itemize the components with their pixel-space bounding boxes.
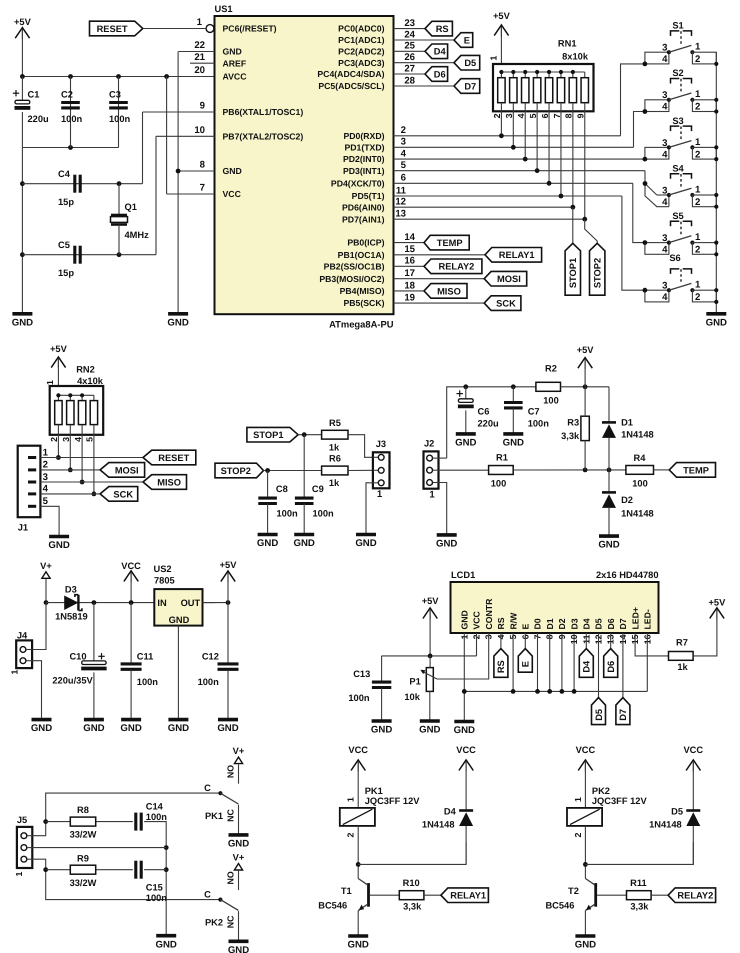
node RN2.2 junction (56, 455, 61, 460)
svg-text:PC2(ADC2): PC2(ADC2) (338, 46, 384, 56)
svg-text:RN1: RN1 (558, 39, 577, 49)
svg-text:PB6(XTAL1/TOSC1): PB6(XTAL1/TOSC1) (223, 107, 304, 117)
svg-text:100n: 100n (313, 509, 335, 519)
node S4 rail joints (714, 193, 718, 197)
svg-text:D4: D4 (582, 660, 592, 673)
svg-text:NO: NO (226, 765, 236, 778)
svg-text:24: 24 (404, 29, 415, 40)
wire J1.5 to GND (40, 506, 59, 535)
svg-text:+5V: +5V (422, 596, 440, 606)
svg-text:23: 23 (404, 18, 415, 29)
svg-text:19: 19 (404, 293, 415, 304)
svg-text:15p: 15p (58, 268, 74, 278)
svg-text:8: 8 (564, 113, 574, 118)
flag RESET (90, 21, 143, 36)
svg-text:100n: 100n (61, 114, 83, 124)
svg-text:S3: S3 (672, 116, 683, 126)
wire S1 pins 1-2 bracket (692, 52, 716, 64)
wire J4.2 to GND (32, 661, 41, 719)
flag RELAY2 (668, 888, 716, 903)
svg-text:VCC: VCC (223, 189, 242, 199)
svg-text:+5V: +5V (50, 344, 68, 354)
svg-text:1: 1 (695, 89, 701, 100)
svg-text:AREF: AREF (223, 58, 247, 68)
potentiometer P1 10k (429, 656, 431, 668)
wire S6 feed from PD5 (622, 196, 645, 290)
svg-text:2: 2 (695, 197, 700, 208)
svg-text:27: 27 (404, 63, 415, 74)
svg-text:2: 2 (492, 113, 502, 118)
node RN1.9 to PD7 (582, 217, 587, 222)
svg-text:D6: D6 (606, 618, 616, 629)
svg-text:RS: RS (436, 24, 449, 34)
svg-text:PB5(SCK): PB5(SCK) (343, 298, 384, 308)
svg-text:RELAY2: RELAY2 (438, 262, 474, 272)
svg-text:PD0(RXD): PD0(RXD) (343, 131, 384, 141)
svg-text:R10: R10 (403, 878, 420, 888)
node crystal top junction (117, 181, 122, 186)
wire C4 row y=183.7 (22, 183, 142, 185)
svg-text:5: 5 (401, 160, 407, 171)
flag RS (425, 21, 452, 36)
ground C11 GND (121, 718, 141, 722)
wire S6 lever (669, 283, 692, 290)
resistor RN1.5 (536, 72, 538, 78)
svg-text:J4: J4 (17, 631, 28, 641)
flag STOP2 input (215, 463, 264, 478)
svg-text:12: 12 (395, 197, 406, 208)
wire J5.1 to PK1 C (32, 793, 219, 836)
wire S3 pins 1-2 bracket (692, 147, 716, 159)
wire LCD GND bus (463, 633, 465, 721)
svg-text:1: 1 (695, 232, 701, 243)
ground C6 GND (456, 432, 476, 436)
svg-text:GND: GND (31, 723, 52, 734)
ground PK1 NC GND (229, 833, 249, 837)
wire PK1 NO terminal (238, 764, 240, 783)
svg-text:R2: R2 (545, 364, 557, 374)
svg-text:13: 13 (395, 209, 406, 220)
flag D4 (425, 44, 448, 59)
wire +5V stem to AVCC bus (21, 29, 23, 77)
ground C13 GND (372, 719, 392, 723)
wire +5V to RN2 common (57, 359, 59, 396)
svg-text:7: 7 (552, 113, 562, 118)
wire S5 feed from PD4 (633, 183, 645, 242)
flag MISO J1 (143, 475, 187, 490)
pin5 R/W to bus (512, 633, 514, 691)
svg-text:4: 4 (401, 149, 407, 160)
svg-text:US1: US1 (215, 4, 233, 14)
relay coil PK1 JQC3FF 12V (340, 808, 375, 826)
svg-text:GND: GND (167, 317, 188, 328)
wire VCC pin7 to bus (166, 77, 168, 195)
power +5V LCD left (423, 608, 437, 619)
svg-text:NC: NC (226, 809, 236, 822)
wire AVCC bus y=76.5 (22, 76, 214, 78)
transistor T2 BC546 (594, 883, 597, 907)
capacitor C5 (73, 246, 76, 264)
svg-text:RELAY1: RELAY1 (450, 891, 486, 901)
svg-text:2: 2 (49, 437, 59, 442)
svg-text:26: 26 (404, 52, 415, 63)
svg-text:S1: S1 (672, 21, 683, 31)
wire PK1 NC terminal (238, 805, 240, 834)
flag D7 LCD (622, 633, 624, 698)
svg-text:GND: GND (348, 940, 369, 951)
svg-text:SCK: SCK (113, 489, 133, 499)
svg-text:25: 25 (404, 41, 415, 52)
svg-text:D3: D3 (65, 585, 77, 595)
ground US1 GND rail (168, 312, 188, 316)
wire C5 to XTAL2 pin10 (155, 136, 157, 254)
connector J1 (18, 446, 41, 518)
node crystal bottom junction (117, 252, 122, 257)
svg-text:D7: D7 (618, 618, 628, 629)
svg-text:1: 1 (695, 280, 701, 291)
svg-text:3: 3 (662, 43, 667, 54)
power VCC D5 (686, 760, 700, 771)
pins D0-D3 to bus (537, 633, 539, 691)
node RN1.7 to PD5 (559, 194, 564, 199)
svg-text:1: 1 (197, 17, 203, 28)
flag RESET J1 (143, 450, 196, 465)
resistor R7 1k (669, 652, 694, 661)
IC US2 7805 (154, 589, 202, 626)
wire V+ to diode line (45, 579, 47, 603)
svg-text:1: 1 (377, 489, 383, 500)
svg-text:LED+: LED+ (630, 607, 640, 629)
svg-text:GND: GND (454, 725, 475, 736)
svg-text:16: 16 (404, 256, 415, 267)
capacitor C8 (267, 471, 269, 499)
ground T2 GND (575, 934, 595, 938)
diode D5 1N4148 (692, 761, 694, 810)
wire LCD pin2 VCC (476, 633, 478, 656)
svg-text:R6: R6 (329, 454, 341, 464)
node RN2.5 junction (92, 492, 97, 497)
svg-text:100: 100 (491, 479, 507, 489)
resistor R5 1k (322, 430, 348, 439)
svg-text:10: 10 (194, 125, 205, 136)
svg-text:D5: D5 (671, 806, 683, 816)
wire S6 pins 1-2 bracket (692, 290, 716, 302)
svg-text:+5V: +5V (493, 11, 511, 21)
svg-text:3: 3 (662, 90, 667, 101)
ground C14/C15 GND (156, 934, 176, 938)
resistor R9 33/2W (70, 865, 95, 874)
svg-text:V+: V+ (233, 746, 245, 756)
wire C15 to mid node (144, 869, 166, 871)
wire R5 to J3.3 (348, 435, 373, 458)
wire S3 lever (669, 141, 692, 148)
svg-text:100: 100 (543, 396, 559, 406)
wire J2.2 to R1 (439, 469, 489, 471)
svg-text:V+: V+ (40, 561, 52, 571)
wire VCC to coil (584, 761, 586, 808)
wire LCD pin15 LED+ to R7 (635, 633, 668, 656)
svg-text:100n: 100n (198, 677, 220, 687)
svg-text:2: 2 (695, 292, 700, 303)
svg-text:33/2W: 33/2W (70, 830, 97, 840)
svg-text:VCC: VCC (576, 745, 596, 755)
wire R11 to flag (651, 894, 668, 896)
node RN1.8 to PD6 (570, 205, 575, 210)
svg-text:RS: RS (496, 660, 506, 673)
wire J2.3 to +5V rail (439, 457, 447, 459)
svg-text:15: 15 (404, 244, 415, 255)
svg-text:R5: R5 (329, 418, 341, 428)
resistor R10 3,3k (399, 891, 424, 900)
svg-text:RELAY1: RELAY1 (499, 250, 535, 260)
svg-text:GND: GND (598, 540, 619, 551)
svg-text:GND: GND (228, 839, 249, 850)
svg-text:18: 18 (404, 280, 415, 291)
svg-text:GND: GND (217, 723, 238, 734)
svg-text:4: 4 (516, 113, 526, 118)
ground LCD1 GND (454, 720, 474, 724)
node RN1.3 to PD1 (511, 145, 516, 150)
svg-text:C: C (204, 783, 211, 793)
node RN2.4 junction (80, 480, 85, 485)
svg-text:BC546: BC546 (545, 901, 574, 911)
svg-text:+5V: +5V (220, 560, 238, 570)
svg-text:MISO: MISO (157, 477, 181, 487)
node bus junctions (68, 74, 73, 79)
crystal Q1 (118, 184, 120, 215)
resistor RN2.4 (81, 395, 83, 400)
flag MOSI (484, 271, 527, 286)
wire R9 line (46, 869, 133, 871)
svg-text:GND: GND (223, 47, 242, 57)
svg-text:GND: GND (355, 538, 376, 549)
resistor RN1.3 (512, 72, 514, 78)
svg-text:PB1(OC1A): PB1(OC1A) (338, 250, 385, 260)
wire C1 to lower bus (21, 112, 23, 148)
diode D2 1N4148 (608, 470, 610, 493)
svg-text:D4: D4 (434, 47, 447, 57)
ground T1 GND (348, 934, 368, 938)
diode D4 1N4148 (465, 761, 467, 810)
svg-text:GND: GND (455, 438, 476, 449)
svg-text:1N4148: 1N4148 (621, 509, 654, 519)
svg-text:D5: D5 (464, 58, 476, 68)
ground switches GND (706, 312, 726, 316)
svg-text:14: 14 (404, 232, 415, 243)
svg-text:RESET: RESET (97, 24, 128, 34)
svg-text:S6: S6 (669, 253, 680, 263)
svg-text:4MHz: 4MHz (125, 230, 150, 240)
svg-text:RN2: RN2 (76, 365, 95, 375)
node S2 rail joints (714, 98, 718, 102)
svg-text:100n: 100n (528, 419, 550, 429)
wire J4.1 to V+ node (32, 603, 46, 650)
resistor network RN1 8x10k (493, 64, 594, 111)
node S3 feed from PD2 (643, 157, 648, 162)
svg-text:2: 2 (43, 460, 48, 471)
svg-text:PK2: PK2 (592, 786, 610, 796)
svg-text:1k: 1k (329, 478, 340, 488)
svg-text:1: 1 (695, 42, 701, 53)
svg-text:3: 3 (504, 113, 514, 118)
svg-text:100n: 100n (146, 812, 168, 822)
wire J1.1 RESET net (40, 457, 143, 459)
svg-text:C5: C5 (58, 240, 70, 250)
wire emitter to GND (584, 911, 586, 935)
svg-text:D1: D1 (545, 618, 555, 629)
svg-text:R7: R7 (676, 638, 688, 648)
flag MISO (424, 284, 467, 299)
wire S2 pins 1-2 bracket (692, 100, 716, 112)
svg-text:D4: D4 (582, 618, 592, 629)
svg-text:PD5(T1): PD5(T1) (352, 191, 385, 201)
relay coil PK2 JQC3FF 12V (567, 808, 602, 826)
svg-text:PC0(ADC0): PC0(ADC0) (338, 24, 384, 34)
capacitor C9 (303, 435, 305, 498)
svg-text:PC3(ADC3): PC3(ADC3) (338, 58, 384, 68)
wire RESET to pin1 (143, 28, 206, 30)
capacitor C7 100n (511, 384, 516, 389)
svg-text:GND: GND (169, 615, 190, 625)
node S1 contact 3 (667, 50, 671, 54)
svg-text:1k: 1k (329, 443, 340, 453)
svg-text:1N4148: 1N4148 (422, 820, 455, 830)
wire switch common rail to GND (715, 52, 717, 314)
svg-text:R3: R3 (567, 418, 579, 428)
svg-text:1: 1 (14, 871, 24, 876)
svg-text:7805: 7805 (154, 575, 175, 585)
wire R8 line (46, 821, 133, 823)
capacitor C11 100n (130, 603, 132, 664)
svg-text:1: 1 (573, 797, 583, 802)
svg-text:D0: D0 (533, 618, 543, 629)
svg-text:E: E (521, 661, 531, 667)
resistor network RN2 4x10k (50, 386, 103, 435)
svg-text:GND: GND (503, 438, 524, 449)
ground D2 GND (599, 534, 619, 538)
power VCC PK1 (351, 760, 365, 771)
wire J1.3 MISO net (40, 481, 143, 483)
power +5V symbol top-left (15, 28, 29, 39)
svg-text:2: 2 (695, 102, 700, 113)
resistor R2 100 (536, 382, 561, 391)
svg-text:GND: GND (223, 166, 242, 176)
wire PK2 lever (220, 900, 238, 911)
svg-text:C8: C8 (276, 484, 288, 494)
svg-text:3,3k: 3,3k (561, 431, 580, 441)
svg-text:VCC: VCC (472, 610, 482, 629)
svg-text:8x10k: 8x10k (562, 52, 589, 62)
wire S1 lever (669, 45, 692, 52)
svg-text:D6: D6 (434, 69, 446, 79)
svg-text:3: 3 (662, 138, 667, 149)
svg-text:100n: 100n (277, 509, 299, 519)
svg-text:C1: C1 (28, 90, 40, 100)
svg-text:100n: 100n (348, 693, 370, 703)
svg-text:R1: R1 (496, 453, 508, 463)
resistor RN2.2 (57, 395, 59, 400)
svg-text:21: 21 (194, 52, 205, 63)
svg-text:GND: GND (228, 945, 249, 953)
wire S2 lever (669, 93, 692, 100)
svg-text:4x10k: 4x10k (77, 376, 104, 386)
flag STOP1 input (247, 427, 298, 442)
ground J1 GND (49, 535, 69, 539)
svg-text:4: 4 (662, 292, 668, 303)
svg-text:GND: GND (168, 723, 189, 734)
svg-text:C: C (204, 889, 211, 899)
resistor RN2.5 (93, 395, 95, 400)
svg-text:4: 4 (662, 245, 668, 256)
transistor T1 BC546 (367, 883, 370, 907)
flag D4 LCD (585, 633, 587, 649)
svg-text:1N5819: 1N5819 (55, 612, 88, 622)
node RN1.5 to PD3 (535, 168, 540, 173)
svg-text:220u: 220u (478, 419, 500, 429)
svg-text:2: 2 (346, 832, 356, 837)
connector J2 (424, 451, 439, 488)
svg-text:4: 4 (73, 437, 83, 442)
wire left rail to GND (21, 148, 23, 314)
svg-text:IN: IN (157, 598, 167, 608)
svg-text:P1: P1 (409, 676, 420, 686)
power V+ symbol (42, 572, 50, 579)
wire PK2 NC terminal (238, 911, 240, 940)
svg-text:D1: D1 (621, 418, 633, 428)
svg-text:220u: 220u (28, 114, 50, 124)
flag SCK J1 (100, 487, 138, 502)
svg-text:R/W: R/W (508, 612, 518, 630)
resistor R4 100 (626, 466, 654, 475)
svg-text:GND: GND (120, 723, 141, 734)
power +5V mid (578, 358, 592, 369)
svg-text:PD3(INT1): PD3(INT1) (343, 166, 385, 176)
ground J3 GND (356, 533, 376, 537)
svg-text:C11: C11 (137, 652, 154, 662)
ground J2 GND (437, 533, 457, 537)
node S2 contact 3 (667, 98, 671, 102)
svg-text:17: 17 (404, 268, 415, 279)
svg-text:GND: GND (156, 939, 177, 950)
wire US2 OUT to +5V (203, 602, 229, 604)
svg-text:J3: J3 (376, 439, 386, 449)
svg-text:1: 1 (429, 490, 435, 501)
wire S5 lever (669, 236, 692, 243)
svg-text:PB2(SS/OC1B): PB2(SS/OC1B) (324, 261, 385, 271)
power +5V out (221, 571, 235, 582)
svg-text:15p: 15p (58, 197, 74, 207)
connector J4 (16, 640, 32, 668)
svg-text:GND: GND (436, 539, 457, 550)
svg-text:PB4(MISO): PB4(MISO) (340, 286, 385, 296)
wire S4 pins 1-2 bracket (692, 195, 716, 207)
diode D3 1N5819 schottky (64, 596, 78, 611)
resistor RN1.7 (560, 72, 562, 78)
svg-text:C10: C10 (69, 652, 86, 662)
svg-text:C15: C15 (146, 883, 163, 893)
wire lower bus y=147.5 (22, 147, 118, 149)
node S5 rail joints (714, 241, 718, 245)
svg-text:C14: C14 (146, 802, 164, 812)
svg-text:D4: D4 (444, 806, 457, 816)
svg-text:STOP2: STOP2 (221, 466, 251, 476)
wire LCD pin3 contrast (437, 633, 489, 679)
wire node to diode D4 (358, 842, 466, 864)
svg-text:AVCC: AVCC (223, 72, 248, 82)
svg-text:PK1: PK1 (365, 786, 383, 796)
svg-text:SCK: SCK (496, 299, 516, 309)
svg-text:100n: 100n (146, 893, 168, 903)
